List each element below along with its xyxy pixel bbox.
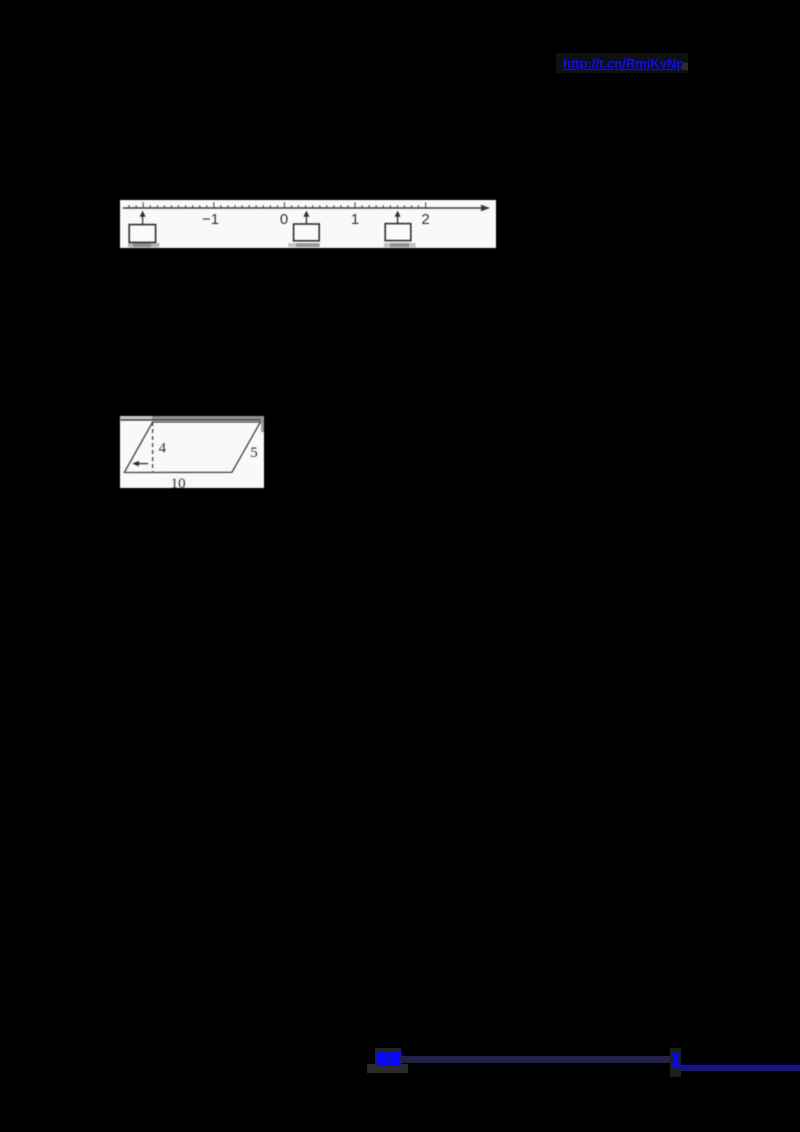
ticks (129, 202, 426, 208)
parallelogram figure (120, 416, 264, 488)
top-right URL link text (563, 56, 684, 71)
axis arrowhead (481, 205, 490, 212)
top gray strips (120, 416, 152, 419)
footer right gray backdrop (670, 1048, 681, 1077)
svg-text:4: 4 (159, 441, 167, 457)
up arrows (143, 217, 398, 225)
svg-text:1: 1 (351, 211, 359, 228)
left arrow (139, 463, 149, 465)
dashed height line (152, 422, 154, 473)
main axis line (123, 207, 484, 209)
footer left gray backdrop upper (375, 1048, 401, 1066)
labels (202, 211, 430, 228)
svg-text:10: 10 (171, 476, 186, 488)
full-width dark line (121, 419, 264, 421)
svg-text:5: 5 (250, 445, 257, 461)
shadows (128, 243, 159, 247)
parallelogram (124, 422, 260, 473)
svg-text:0: 0 (280, 211, 288, 228)
footer left gray backdrop lower (367, 1064, 408, 1073)
number line figure (120, 200, 496, 248)
boxes (129, 224, 411, 243)
svg-text:2: 2 (421, 211, 429, 228)
svg-text:−1: −1 (202, 211, 219, 228)
right gray tab (261, 416, 264, 432)
labels (159, 441, 258, 492)
small gray square after URL (682, 63, 688, 70)
footer bright navy bar (680, 1065, 800, 1071)
footer navy bar (400, 1056, 672, 1063)
footer blue "1" (674, 1053, 679, 1065)
footer blue glyph blob (377, 1052, 388, 1064)
top-right URL faint backdrop (556, 53, 688, 73)
